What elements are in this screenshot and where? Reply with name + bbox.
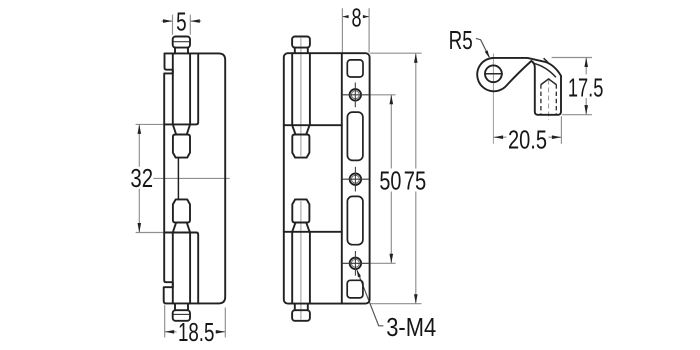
svg-text:3-M4: 3-M4 [386,313,436,342]
svg-text:R5: R5 [449,26,473,54]
svg-text:5: 5 [176,8,187,36]
svg-text:32: 32 [130,164,153,193]
svg-text:75: 75 [404,166,426,195]
svg-text:17.5: 17.5 [568,73,603,102]
svg-text:20.5: 20.5 [508,125,547,154]
svg-text:8: 8 [351,3,361,32]
svg-text:50: 50 [379,166,401,195]
svg-text:18.5: 18.5 [178,318,214,346]
